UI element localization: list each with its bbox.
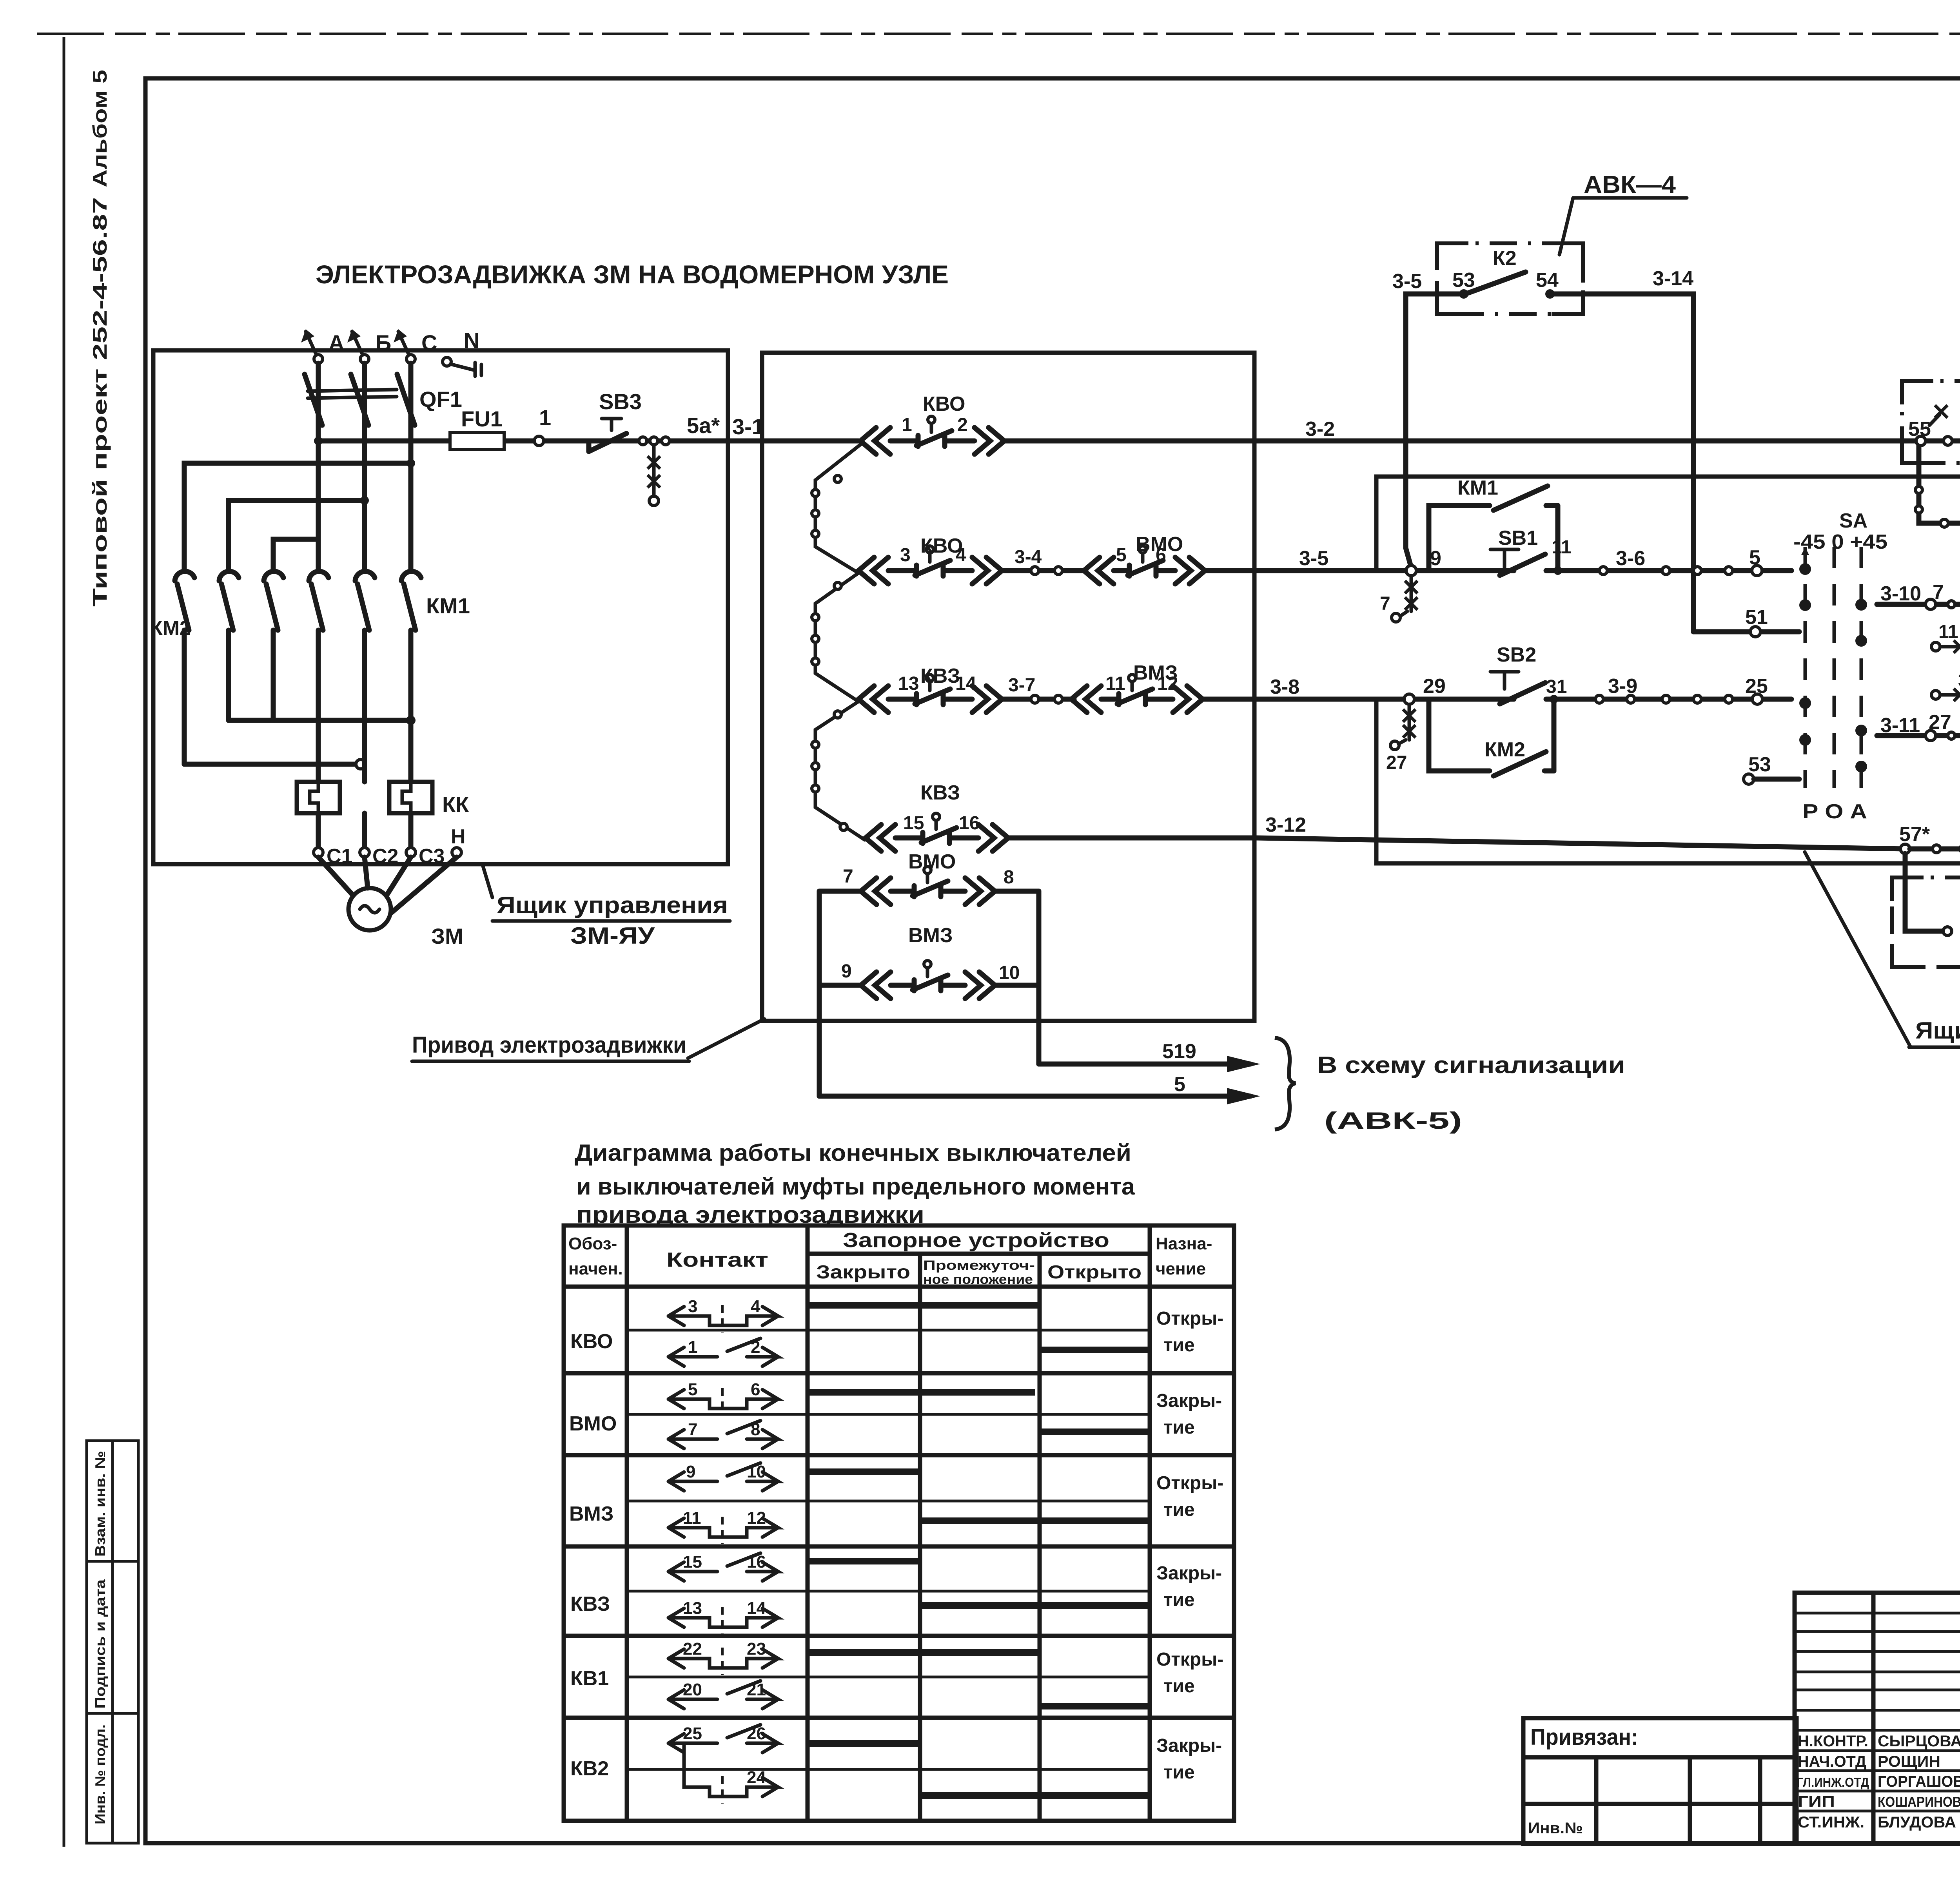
svg-text:КВ2: КВ2: [570, 1757, 609, 1780]
wire row3 exit: [1203, 697, 1514, 702]
svg-text:519: 519: [1162, 1040, 1196, 1063]
svg-text:12: 12: [747, 1508, 766, 1528]
junction chain 3-6: [1599, 567, 1733, 575]
wire link 3-7: [1002, 697, 1074, 702]
cabinet note: Ящик управления ЗМ-ЯУ: [1909, 1017, 1960, 1080]
svg-text:15: 15: [683, 1552, 702, 1572]
junction chain after SB3: [639, 437, 670, 445]
svg-text:N: N: [464, 328, 479, 353]
svg-text:Откры-: Откры-: [1156, 1473, 1223, 1494]
torque switch VMZ contact 11-12: [1071, 674, 1203, 712]
signal lamp row HL2: [1900, 844, 1960, 854]
svg-text:чение: чение: [1156, 1259, 1206, 1278]
wire 57 down to 3-R2 row: [1905, 854, 1943, 931]
svg-text:3-12: 3-12: [1265, 814, 1306, 836]
KVZ bar mid+open: [920, 1602, 1150, 1609]
svg-text:SB2: SB2: [1497, 644, 1536, 666]
limit switch KVO contact 3-4: [858, 546, 1002, 584]
VMO contact 7-8 symbol: [668, 1420, 778, 1448]
svg-text:5: 5: [1116, 545, 1127, 566]
junction chain 3-9: [1595, 695, 1733, 703]
svg-text:Диаграмма работы конечных выкл: Диаграмма работы конечных выключателей: [575, 1140, 1131, 1166]
limit switch KVO contact 1-2: [860, 416, 1004, 454]
circuit breaker QF1: [305, 363, 415, 570]
svg-text:Запорное устройство: Запорное устройство: [843, 1229, 1109, 1252]
svg-text:13: 13: [898, 673, 919, 694]
svg-text:3-11: 3-11: [1880, 714, 1920, 737]
cabinet note leader (relay side): [1805, 852, 1910, 1046]
contactor KM1 poles: [309, 571, 421, 669]
svg-text:(АВК-5): (АВК-5): [1324, 1108, 1462, 1134]
KM2 seal-in contact bypass: [1429, 702, 1554, 776]
signal lamp row HL1: [1915, 441, 1960, 527]
svg-text:ГОРГАШОВ: ГОРГАШОВ: [1878, 1773, 1960, 1790]
svg-text:7: 7: [843, 866, 853, 887]
svg-text:тие: тие: [1163, 1676, 1195, 1697]
svg-text:3-5: 3-5: [1392, 270, 1422, 293]
svg-text:7: 7: [1380, 593, 1390, 614]
K2 contact 53-54: [1437, 272, 1583, 299]
signal wire 5 with arrow: [819, 1088, 1260, 1104]
terminal H: [452, 848, 461, 857]
test tap 7 below node 9: [1380, 576, 1417, 622]
test tap 5a with break symbols: [648, 445, 660, 506]
wire row2 exit: [1205, 568, 1514, 573]
brace to signalling scheme: [1275, 1038, 1296, 1129]
torque switch VMO contact 7-8: [861, 867, 995, 905]
VMZ bar mid+open: [920, 1517, 1150, 1524]
sheet left edge line: [63, 37, 65, 1847]
svg-text:3-8: 3-8: [1270, 676, 1299, 698]
svg-text:Закрыто: Закрыто: [816, 1262, 910, 1283]
svg-text:SB1: SB1: [1498, 527, 1538, 549]
svg-text:7: 7: [1933, 581, 1944, 604]
wire row 1 feed 3-1 to 3-2: [728, 439, 858, 444]
svg-text:С1: С1: [327, 845, 352, 868]
svg-text:16: 16: [959, 813, 980, 834]
neutral N terminal: [443, 357, 481, 376]
svg-text:20: 20: [683, 1680, 702, 1699]
svg-text:тие: тие: [1163, 1335, 1195, 1356]
KV2 bar mid+open: [920, 1792, 1150, 1799]
svg-text:Привязан:: Привязан:: [1530, 1724, 1638, 1750]
svg-text:55: 55: [1908, 418, 1931, 441]
torque switch VMO contact 5-6: [1084, 546, 1205, 584]
svg-text:тие: тие: [1163, 1590, 1195, 1610]
svg-text:СТ.ИНЖ.: СТ.ИНЖ.: [1798, 1814, 1864, 1831]
svg-text:С2: С2: [372, 845, 398, 868]
wire 53 stub to SA: [1744, 774, 1799, 784]
svg-text:3-7: 3-7: [1008, 675, 1035, 696]
torque switch VMZ contact 9-10: [861, 961, 995, 999]
svg-text:1: 1: [902, 415, 912, 435]
contactor KM2 poles: [175, 571, 283, 669]
svg-text:3-2: 3-2: [1305, 418, 1335, 441]
svg-text:24: 24: [747, 1768, 766, 1787]
svg-text:Н: Н: [451, 825, 466, 848]
svg-text:3: 3: [688, 1297, 697, 1316]
svg-text:15: 15: [903, 813, 924, 834]
svg-text:5: 5: [1174, 1073, 1185, 1096]
svg-text:Н.КОНТР.: Н.КОНТР.: [1798, 1733, 1868, 1750]
svg-text:2: 2: [751, 1338, 760, 1357]
svg-text:3-6: 3-6: [1616, 547, 1645, 570]
svg-text:Инв.№: Инв.№: [1528, 1820, 1583, 1837]
relay K2 dash-dot box: [1437, 243, 1583, 314]
svg-text:КМ1: КМ1: [1457, 477, 1498, 499]
svg-text:13: 13: [683, 1599, 702, 1618]
node 31: [1550, 695, 1558, 703]
wire 3-5 from K2 down to node 9: [1406, 294, 1437, 567]
svg-text:Закры-: Закры-: [1156, 1735, 1222, 1756]
svg-text:9: 9: [686, 1462, 695, 1481]
KVZ contact 13-14 symbol: [668, 1599, 778, 1634]
svg-text:1: 1: [688, 1338, 697, 1357]
KVO contact 3-4 symbol: [668, 1297, 778, 1332]
svg-text:А: А: [328, 330, 344, 355]
svg-text:К2: К2: [1493, 247, 1517, 270]
node 25: [1752, 694, 1762, 704]
svg-text:ВМО: ВМО: [908, 850, 956, 873]
thermal relay KK heater 2: [389, 782, 432, 813]
svg-text:С: С: [421, 330, 437, 355]
wire row SB2 to SA: [1546, 697, 1791, 702]
KM1 seal-in contact bypass: [1429, 486, 1558, 571]
phase C input arrow: [394, 329, 415, 363]
svg-text:6: 6: [751, 1380, 760, 1399]
svg-text:Ящик управления: Ящик управления: [1915, 1017, 1960, 1044]
svg-text:31: 31: [1958, 670, 1960, 691]
limit switch KVZ contact 13-14: [858, 674, 1002, 712]
svg-text:9: 9: [1430, 547, 1441, 570]
svg-text:Привод электрозадвижки: Привод электрозадвижки: [412, 1032, 686, 1058]
svg-text:КМ2: КМ2: [150, 617, 191, 640]
svg-text:КВЗ: КВЗ: [570, 1593, 610, 1615]
control cabinet box (power side) ЗМ-ЯУ: [153, 350, 728, 864]
terminal C1: [314, 848, 323, 857]
svg-text:С3: С3: [419, 845, 445, 868]
KVO bar closed+mid: [808, 1302, 1040, 1309]
diagram table grid: [564, 1225, 1234, 1821]
svg-text:57*: 57*: [1899, 823, 1930, 846]
svg-text:26: 26: [747, 1724, 766, 1743]
left stamp boxes: [87, 1441, 138, 1843]
VMO bar closed+mid: [808, 1389, 1035, 1396]
ShAPN dash-dot box top: [1902, 381, 1960, 463]
svg-text:ВМЗ: ВМЗ: [908, 924, 953, 947]
reference stamp box Привязан: [1523, 1718, 1797, 1844]
wire row4 exit: [1008, 838, 1905, 849]
KM2 feed jumper phase A: [273, 539, 318, 570]
svg-text:-45 0 +45: -45 0 +45: [1793, 531, 1887, 553]
svg-text:11: 11: [1105, 673, 1125, 694]
svg-text:КВО: КВО: [923, 393, 965, 415]
KV2 bar closed: [808, 1740, 920, 1747]
svg-text:ГИП: ГИП: [1798, 1793, 1835, 1810]
actuator label leader: [688, 1019, 764, 1058]
svg-text:29: 29: [1423, 675, 1446, 698]
VMZ contact 11-12 symbol: [668, 1508, 778, 1544]
ShAPN dash-dot box bottom: [1892, 877, 1960, 967]
svg-text:5а*: 5а*: [687, 413, 720, 438]
control cabinet box (relay side) ЗМ-ЯУ: [1376, 477, 1960, 863]
cable bundle chain left: [812, 444, 865, 840]
svg-text:8: 8: [1004, 867, 1014, 888]
node 51: [1750, 627, 1760, 637]
svg-text:Типовой проект 252-4-56.87: Типовой проект 252-4-56.87: [89, 197, 111, 607]
svg-text:Ящик управления: Ящик управления: [497, 892, 728, 918]
KV2 contact 25-26 symbol: [668, 1724, 778, 1753]
svg-text:53: 53: [1452, 269, 1475, 292]
svg-text:5: 5: [1749, 546, 1760, 569]
VMO bar open: [1040, 1428, 1150, 1435]
svg-text:В схему сигнализации: В схему сигнализации: [1317, 1052, 1625, 1078]
svg-text:АВК—4: АВК—4: [1584, 171, 1676, 198]
svg-text:Подпись и дата: Подпись и дата: [92, 1579, 108, 1709]
KVZ bar closed: [808, 1558, 920, 1564]
wire 51 to SA: [1693, 629, 1799, 634]
svg-text:2: 2: [957, 415, 968, 435]
motor ZM: [318, 857, 457, 930]
svg-text:Открыто: Открыто: [1047, 1262, 1142, 1283]
svg-text:6: 6: [1156, 545, 1166, 566]
svg-text:РОЩИН: РОЩИН: [1878, 1753, 1940, 1770]
svg-text:и выключателей муфты предель: и выключателей муфты предельного момента: [576, 1173, 1135, 1200]
svg-text:3: 3: [900, 545, 911, 566]
svg-text:54: 54: [1536, 269, 1559, 292]
svg-text:Закры-: Закры-: [1156, 1563, 1222, 1584]
svg-text:ЗМ: ЗМ: [431, 924, 463, 948]
svg-text:БЛУДОВА: БЛУДОВА: [1878, 1814, 1956, 1831]
svg-text:23: 23: [747, 1639, 766, 1659]
svg-text:QF1: QF1: [419, 387, 462, 412]
svg-text:FU1: FU1: [461, 406, 503, 431]
svg-text:14: 14: [955, 673, 976, 694]
svg-text:КМ1: КМ1: [426, 593, 470, 618]
svg-text:11: 11: [1552, 537, 1572, 558]
KM2 feed jumper phase C: [184, 463, 411, 570]
wire link 3-4: [1002, 568, 1086, 573]
svg-text:25: 25: [683, 1724, 702, 1743]
reversing crossover wires: [184, 669, 416, 782]
svg-text:Откры-: Откры-: [1156, 1649, 1223, 1670]
selector switch SA columns: [1799, 547, 1867, 788]
KV2 contact 24 symbol: [684, 1743, 778, 1804]
svg-text:3-5: 3-5: [1299, 547, 1328, 570]
svg-text:4: 4: [751, 1297, 760, 1316]
VMZ bar closed: [808, 1468, 920, 1475]
VMZ contact 9-10 symbol: [668, 1462, 778, 1491]
node 29: [1404, 694, 1414, 704]
svg-text:ВМЗ: ВМЗ: [569, 1503, 613, 1525]
svg-text:8: 8: [751, 1420, 760, 1439]
svg-text:Откры-: Откры-: [1156, 1308, 1223, 1329]
test tap 11 stub: [1931, 609, 1960, 653]
wire row1 to box edge: [1004, 439, 1960, 444]
svg-text:КК: КК: [442, 792, 469, 817]
svg-text:Р О А: Р О А: [1802, 800, 1867, 823]
wire row 3-11: [1877, 731, 1960, 741]
svg-text:тие: тие: [1163, 1417, 1195, 1438]
svg-text:21: 21: [747, 1680, 766, 1699]
cabinet label leader: [483, 866, 492, 897]
svg-text:SA: SA: [1839, 509, 1867, 532]
svg-text:ГЛ.ИНЖ.ОТД: ГЛ.ИНЖ.ОТД: [1797, 1775, 1869, 1789]
KVO bar open: [1040, 1347, 1150, 1353]
phase B input arrow: [347, 329, 369, 363]
KVZ contact 15-16 symbol: [668, 1552, 778, 1581]
pushbutton SB3: [589, 419, 626, 451]
pushbutton SB1: [1490, 549, 1545, 575]
svg-text:тие: тие: [1163, 1762, 1195, 1783]
svg-text:27: 27: [1929, 711, 1951, 734]
limit switch KVZ contact 15-16: [866, 813, 1008, 851]
svg-text:7: 7: [688, 1420, 697, 1439]
svg-text:КВ1: КВ1: [570, 1667, 609, 1690]
test tap 31 stub: [1931, 670, 1960, 730]
svg-text:31: 31: [1546, 676, 1567, 697]
pushbutton SB2: [1490, 672, 1545, 704]
svg-text:11: 11: [683, 1508, 701, 1528]
svg-text:3-1: 3-1: [732, 414, 764, 439]
wire 3-14 from K2 to SA column: [1583, 294, 1693, 632]
svg-text:10: 10: [747, 1462, 766, 1481]
KV1 bar open: [1040, 1703, 1150, 1709]
svg-text:16: 16: [747, 1552, 766, 1572]
svg-text:ВМО: ВМО: [569, 1412, 617, 1435]
svg-text:9: 9: [841, 961, 852, 982]
svg-text:тие: тие: [1163, 1499, 1195, 1520]
valve actuator box (Привод электрозадвижки): [762, 353, 1254, 1021]
svg-text:53: 53: [1748, 753, 1771, 776]
svg-text:4: 4: [956, 545, 966, 566]
wires row6: [819, 983, 861, 988]
KV1 contact 22-23 symbol: [668, 1639, 778, 1675]
svg-text:25: 25: [1745, 675, 1768, 698]
resistor 3-R1: [1944, 432, 1960, 450]
svg-text:КВЗ: КВЗ: [920, 781, 960, 804]
svg-text:5: 5: [688, 1380, 697, 1399]
svg-text:3-14: 3-14: [1653, 267, 1693, 290]
wire row SB1 to SA: [1546, 568, 1791, 573]
svg-text:Закры-: Закры-: [1156, 1390, 1222, 1411]
KV1 bar closed+mid: [808, 1649, 1040, 1656]
svg-text:КВЗ: КВЗ: [920, 665, 960, 687]
svg-text:КМ2: КМ2: [1485, 738, 1525, 761]
svg-text:Промежуточ-: Промежуточ-: [923, 1258, 1035, 1273]
svg-text:10: 10: [999, 963, 1020, 983]
node 1: [534, 436, 544, 446]
motor terminal wires: [318, 813, 411, 848]
test tap 27 below node 29: [1386, 704, 1416, 773]
svg-text:КОШАРИНОВА: КОШАРИНОВА: [1878, 1794, 1960, 1810]
wires row5: [819, 889, 861, 894]
KM2 feed jumper phase B: [229, 500, 365, 570]
phase A input arrow: [301, 329, 323, 363]
vertical bus right of rows 5-6: [1036, 891, 1042, 1064]
svg-text:11: 11: [1938, 622, 1958, 642]
svg-text:3-10: 3-10: [1880, 582, 1921, 605]
svg-text:22: 22: [683, 1639, 702, 1659]
svg-text:14: 14: [747, 1599, 766, 1618]
svg-text:СЫРЦОВА: СЫРЦОВА: [1878, 1733, 1960, 1750]
svg-text:51: 51: [1745, 606, 1768, 629]
svg-text:Обоз-: Обоз-: [568, 1234, 617, 1253]
KV1 contact 20-21 symbol: [668, 1680, 778, 1709]
svg-text:SB3: SB3: [599, 389, 642, 414]
svg-text:Назна-: Назна-: [1156, 1234, 1212, 1253]
svg-text:ное положение: ное положение: [923, 1272, 1033, 1287]
wire: main control feed row: [318, 439, 762, 444]
svg-text:Б: Б: [376, 330, 391, 355]
node 5: [1752, 566, 1762, 576]
node 55*: [1916, 436, 1926, 446]
svg-text:НАЧ.ОТД: НАЧ.ОТД: [1798, 1753, 1866, 1770]
svg-text:Контакт: Контакт: [666, 1249, 768, 1271]
terminal C2: [360, 848, 369, 857]
node 9: [1406, 566, 1416, 576]
signature rows: [1797, 1733, 1960, 1831]
svg-text:Взам. инв. №: Взам. инв. №: [92, 1451, 108, 1557]
svg-text:Инв. № подл.: Инв. № подл.: [92, 1724, 108, 1824]
main title block frame: [1795, 1593, 1960, 1844]
vertical bus left of rows 5-6: [817, 891, 822, 1096]
svg-text:12: 12: [1157, 673, 1178, 694]
svg-text:27: 27: [1386, 752, 1407, 773]
svg-text:ЭЛЕКТРОЗАДВИЖКА ЗМ НА ВОДОМ: ЭЛЕКТРОЗАДВИЖКА ЗМ НА ВОДОМЕРНОМ УЗЛЕ: [316, 260, 949, 289]
signal wire 519 with arrow: [1039, 1056, 1260, 1072]
KVO contact 1-2 symbol: [668, 1338, 778, 1366]
sheet top dashed edge: [37, 33, 1960, 35]
svg-text:начен.: начен.: [568, 1259, 623, 1278]
thermal relay KK heater 1: [297, 782, 340, 813]
svg-text:Альбом 5: Альбом 5: [89, 70, 111, 187]
resistor 3-R2: [1943, 922, 1960, 940]
svg-text:3-4: 3-4: [1014, 547, 1042, 567]
terminal C3: [406, 848, 416, 857]
fuse FU1: [450, 432, 504, 450]
svg-text:ЗМ-ЯУ: ЗМ-ЯУ: [570, 923, 655, 949]
wire row 3-10: [1877, 599, 1960, 609]
node 11: [1553, 566, 1562, 575]
svg-text:1: 1: [539, 405, 551, 430]
svg-text:КВО: КВО: [570, 1330, 613, 1353]
VMO contact 5-6 symbol: [668, 1380, 778, 1416]
